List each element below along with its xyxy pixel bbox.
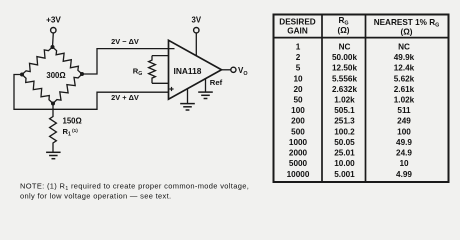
wire: +3V terminal to bridge top node [52,33,55,47]
svg-text:200: 200 [291,117,305,126]
resistor RG gain-set [149,56,156,84]
pin: op-amp V- to ground [187,89,189,104]
wire: RG bottom stub to op-amp [152,82,169,84]
svg-text:1000: 1000 [289,138,308,147]
svg-text:5: 5 [296,64,301,73]
terminal 3V [192,16,202,33]
svg-text:50.05: 50.05 [334,138,355,147]
svg-text:49.9k: 49.9k [394,53,415,62]
svg-text:RG: RG [133,66,143,77]
svg-text:+3V: +3V [46,15,61,24]
svg-text:10000: 10000 [287,170,310,179]
svg-text:4.99: 4.99 [396,170,412,179]
wire: bridge right node to op-amp inverting input (2V - dV) [82,49,175,74]
ground: below R1 [46,152,61,158]
svg-text:12.4k: 12.4k [394,64,415,73]
ground: op-amp V- [180,104,195,110]
svg-text:3V: 3V [192,16,202,25]
svg-text:NOTE: (1) R1 required to creat: NOTE: (1) R1 required to create proper c… [20,181,249,192]
node: bridge top [51,45,55,49]
node: bridge bottom [51,102,55,106]
svg-text:100.2: 100.2 [334,127,355,136]
svg-text:50.00k: 50.00k [332,53,357,62]
svg-text:5.62k: 5.62k [394,74,415,83]
svg-text:10.00: 10.00 [334,159,355,168]
svg-text:2000: 2000 [289,149,308,158]
svg-text:INA118: INA118 [174,66,202,76]
op-amp U1 INA118 [169,40,222,99]
svg-text:150Ω: 150Ω [63,117,82,126]
pin Ref to ground [205,78,207,92]
svg-text:251.3: 251.3 [334,117,355,126]
pin marker: non-inverting + input [169,87,173,91]
svg-text:505.1: 505.1 [334,106,355,115]
svg-text:VO: VO [238,66,248,77]
svg-text:NC: NC [339,42,351,51]
bridge resistor bottom-right [53,74,82,104]
gain table header [279,16,439,37]
svg-text:5.556k: 5.556k [332,74,357,83]
terminal +3V [46,15,61,33]
svg-text:DESIRED: DESIRED [279,18,315,27]
ground: Ref pin [198,92,213,98]
svg-text:511: 511 [397,106,411,115]
node: bridge left [20,73,24,77]
svg-text:10: 10 [293,74,303,83]
wire: bridge left node loop to op-amp non-inverting input (2V + dV) [14,75,169,110]
svg-text:24.9: 24.9 [396,149,412,158]
svg-text:2V − ΔV: 2V − ΔV [111,37,139,46]
svg-text:50: 50 [293,96,303,105]
note text [20,181,249,200]
gain table rows [287,42,415,178]
svg-text:49.9: 49.9 [396,138,412,147]
bridge resistor top-left [22,47,53,75]
svg-text:2.61k: 2.61k [394,85,415,94]
svg-text:(Ω): (Ω) [400,28,412,37]
svg-text:100: 100 [397,127,411,136]
svg-text:1.02k: 1.02k [394,96,415,105]
svg-text:100: 100 [291,106,305,115]
wire: op-amp output [222,69,231,71]
bridge resistor bottom-left [22,75,53,104]
svg-text:Ref: Ref [210,78,223,87]
svg-text:12.50k: 12.50k [332,64,357,73]
svg-text:300Ω: 300Ω [46,71,65,80]
node: bridge right [80,72,84,76]
svg-text:5000: 5000 [289,159,308,168]
svg-text:NC: NC [398,42,410,51]
svg-text:RG: RG [338,16,348,27]
svg-text:500: 500 [291,127,305,136]
terminal output Vo [231,66,248,77]
wire: 3V supply to op-amp V+ [195,33,197,56]
svg-text:R1 (1): R1 (1) [63,127,79,138]
svg-text:249: 249 [397,117,411,126]
svg-text:1.02k: 1.02k [334,96,355,105]
svg-text:GAIN: GAIN [287,27,308,36]
svg-text:1: 1 [296,42,301,51]
svg-text:20: 20 [293,85,303,94]
svg-text:2V + ΔV: 2V + ΔV [111,93,139,102]
svg-text:2.632k: 2.632k [332,85,357,94]
svg-text:2: 2 [296,53,301,62]
svg-text:(Ω): (Ω) [337,26,349,35]
svg-text:only for low voltage operation: only for low voltage operation — see tex… [20,191,171,200]
svg-text:25.01: 25.01 [334,149,355,158]
bridge resistor top-right [53,47,83,74]
gain table frame [274,15,449,183]
svg-text:10: 10 [399,159,409,168]
resistor R1 150 ohm [50,104,57,153]
svg-text:5.001: 5.001 [334,170,355,179]
wire: RG top stub to op-amp [152,55,169,57]
